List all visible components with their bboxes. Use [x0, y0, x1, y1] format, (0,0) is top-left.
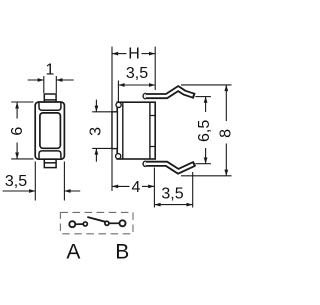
central plunger rectangle [40, 113, 61, 148]
dashed enclosure box [60, 212, 133, 233]
side view body [117, 102, 155, 159]
body outline (top view) [35, 102, 64, 159]
arrowheads for 4 [112, 185, 118, 189]
top collar band [39, 103, 61, 111]
arrowheads for 3,5 top [118, 83, 124, 87]
arrowheads for 8 [224, 85, 228, 91]
extension line left for 3,5 top [117, 81, 119, 102]
dimension 8 extension lines [181, 85, 232, 176]
column divider top [150, 115, 155, 117]
svg-text:1: 1 [46, 62, 55, 79]
dimension 6,5 ticks [195, 97, 211, 164]
dimension line for 3,5 (top of side view) [118, 84, 155, 86]
arrowheads for 3,5 (left figure) [29, 189, 35, 193]
dimension line for H [112, 53, 155, 55]
dimension 3 extension ticks [92, 112, 112, 149]
wire B [109, 222, 119, 224]
dimension line for 6 [16, 102, 18, 158]
inner left wall line [122, 102, 124, 159]
column divider bottom [150, 146, 155, 148]
svg-text:B: B [115, 240, 129, 263]
svg-text:A: A [66, 240, 80, 263]
dimension line for 3,5 (bottom right) [154, 204, 192, 206]
wire A [75, 223, 83, 225]
contact B circle [105, 221, 109, 225]
arrowheads for 3 [95, 106, 99, 112]
svg-text:8: 8 [218, 129, 235, 138]
bottom tab [44, 159, 56, 167]
corner circle bottom [116, 154, 121, 159]
extension line between 4 and 3,5 (shared) [153, 168, 155, 208]
arrowheads for 6 [15, 102, 19, 108]
dimension line for 1 (left segment with arrow) [28, 79, 74, 81]
svg-text:6,5: 6,5 [196, 120, 213, 142]
dimension line for 3 [95, 100, 97, 162]
dimension line for 8 [225, 85, 227, 176]
H right extension line [154, 47, 156, 90]
bottom clip arm (zigzag spring) [143, 161, 195, 171]
right extension line for 3,5 bottom [192, 172, 194, 208]
arrowheads for 1 [38, 78, 44, 82]
dimension 6 extension lines [11, 102, 33, 159]
svg-text:4: 4 [132, 179, 141, 196]
H left extension line (runs down to figure and 4 dim) [111, 47, 113, 191]
top clip arm (zigzag spring) [143, 89, 195, 99]
button (top view, plunger stem) [44, 94, 56, 102]
dimension line for 3,5 (left figure) [3, 190, 81, 192]
arrowheads for 6,5 [204, 97, 208, 103]
svg-text:3: 3 [87, 127, 104, 136]
terminal B outer circle [120, 220, 126, 226]
svg-text:H: H [128, 46, 140, 63]
side view button (plunger, pointing left) [112, 112, 117, 149]
dimension 3,5 extension lines (left figure) [35, 162, 64, 201]
dimension line for 4 [112, 185, 154, 187]
right metal column [149, 102, 151, 159]
extension ticks for 1 [44, 76, 57, 93]
switch lever [87, 217, 108, 222]
terminal A outer circle [69, 221, 75, 227]
arrowheads for 3,5 bottom [154, 203, 160, 207]
svg-text:6: 6 [9, 127, 26, 136]
arrowheads for H [112, 52, 118, 56]
dimension line for 6,5 [205, 97, 207, 164]
contact A circle [83, 222, 87, 226]
bottom collar band [39, 151, 61, 159]
corner circle top [116, 102, 121, 107]
svg-text:3,5: 3,5 [126, 65, 148, 82]
svg-text:3,5: 3,5 [5, 173, 27, 190]
svg-text:3,5: 3,5 [161, 185, 183, 202]
